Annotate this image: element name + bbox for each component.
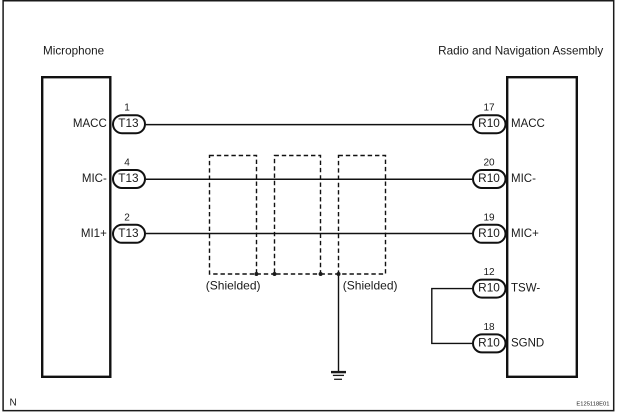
svg-text:E125118E01: E125118E01 bbox=[576, 401, 609, 407]
svg-text:N: N bbox=[10, 398, 17, 409]
svg-text:T13: T13 bbox=[118, 116, 139, 130]
svg-text:R10: R10 bbox=[478, 226, 500, 240]
svg-text:4: 4 bbox=[124, 158, 130, 169]
svg-text:R10: R10 bbox=[478, 116, 500, 130]
svg-text:R10: R10 bbox=[478, 335, 500, 349]
svg-text:12: 12 bbox=[483, 267, 495, 278]
svg-text:Microphone: Microphone bbox=[43, 44, 104, 57]
svg-text:R10: R10 bbox=[478, 171, 500, 185]
svg-text:18: 18 bbox=[483, 322, 495, 333]
svg-text:2: 2 bbox=[124, 212, 130, 223]
svg-text:(Shielded): (Shielded) bbox=[206, 279, 261, 293]
svg-text:17: 17 bbox=[483, 103, 495, 114]
svg-text:MIC+: MIC+ bbox=[511, 228, 539, 240]
svg-text:19: 19 bbox=[483, 212, 495, 223]
svg-text:20: 20 bbox=[483, 158, 495, 169]
svg-text:(Shielded): (Shielded) bbox=[343, 279, 398, 293]
svg-text:MI1+: MI1+ bbox=[81, 228, 107, 240]
svg-text:Radio and Navigation Assembly: Radio and Navigation Assembly bbox=[438, 44, 603, 57]
svg-text:R10: R10 bbox=[478, 281, 500, 295]
svg-text:T13: T13 bbox=[118, 171, 139, 185]
svg-text:SGND: SGND bbox=[511, 337, 544, 349]
svg-text:MACC: MACC bbox=[73, 118, 107, 130]
svg-text:MACC: MACC bbox=[511, 118, 545, 130]
svg-text:MIC-: MIC- bbox=[82, 173, 107, 185]
svg-text:T13: T13 bbox=[118, 226, 139, 240]
svg-text:MIC-: MIC- bbox=[511, 173, 536, 185]
svg-text:TSW-: TSW- bbox=[511, 283, 540, 295]
svg-text:1: 1 bbox=[124, 103, 130, 114]
